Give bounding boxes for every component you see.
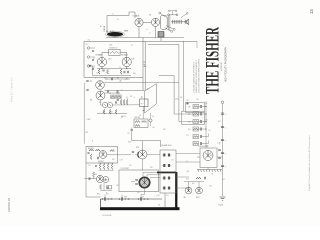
svg-text:.05: .05 bbox=[152, 116, 154, 118]
svg-text:330: 330 bbox=[205, 103, 208, 105]
svg-text:R39: R39 bbox=[137, 192, 140, 194]
svg-text:68K: 68K bbox=[180, 97, 183, 99]
svg-text:26: 26 bbox=[188, 114, 190, 116]
svg-text:C1: C1 bbox=[112, 14, 114, 16]
svg-text:C33: C33 bbox=[116, 185, 119, 187]
svg-text:220K: 220K bbox=[175, 99, 178, 101]
svg-text:6V6: 6V6 bbox=[133, 73, 136, 75]
svg-text:R25: R25 bbox=[186, 179, 189, 181]
svg-text:C38: C38 bbox=[210, 155, 213, 157]
svg-text:V6: V6 bbox=[90, 100, 92, 102]
svg-text:R33: R33 bbox=[218, 121, 221, 123]
svg-text:C4: C4 bbox=[96, 73, 98, 75]
svg-text:L1 . P-T2 .: L1 . P-T2 . bbox=[106, 31, 116, 33]
svg-text:R19: R19 bbox=[99, 102, 102, 104]
svg-text:5K: 5K bbox=[212, 174, 214, 176]
svg-text:B+245: B+245 bbox=[219, 205, 224, 207]
svg-text:T4: T4 bbox=[198, 146, 200, 148]
svg-text:C50 40-40 MF: C50 40-40 MF bbox=[102, 215, 112, 217]
svg-text:6.3V: 6.3V bbox=[120, 160, 123, 162]
svg-text:T2: T2 bbox=[149, 33, 151, 35]
svg-text:R36: R36 bbox=[150, 167, 153, 169]
svg-text:5Y3: 5Y3 bbox=[187, 171, 190, 173]
svg-text:C15: C15 bbox=[99, 86, 102, 88]
svg-text:.005: .005 bbox=[196, 99, 199, 101]
svg-text:V11: V11 bbox=[94, 174, 97, 176]
svg-text:100: 100 bbox=[206, 146, 209, 148]
svg-text:470K: 470K bbox=[116, 93, 119, 95]
svg-text:S2: S2 bbox=[147, 89, 149, 91]
svg-text:R20: R20 bbox=[86, 132, 89, 134]
svg-text:115V: 115V bbox=[141, 197, 144, 199]
svg-text:R26: R26 bbox=[112, 159, 115, 161]
svg-text:C5: C5 bbox=[93, 58, 95, 60]
svg-text:R28: R28 bbox=[163, 129, 166, 131]
svg-text:R1: R1 bbox=[131, 45, 133, 47]
svg-text:R30 R31: R30 R31 bbox=[88, 148, 94, 150]
svg-text:C28: C28 bbox=[129, 165, 132, 167]
svg-text:B: B bbox=[106, 193, 107, 195]
svg-text:V1 6AU6: V1 6AU6 bbox=[133, 15, 140, 18]
svg-text:Mag/AFC/TVno/CondioBook.con Fi: Mag/AFC/TVno/CondioBook.con Fisher 80 Ch… bbox=[308, 135, 311, 191]
svg-text:6BE6: 6BE6 bbox=[124, 31, 128, 33]
svg-text:V2: V2 bbox=[149, 15, 151, 17]
svg-text:R7: R7 bbox=[93, 68, 95, 70]
svg-text:V3 6BA6: V3 6BA6 bbox=[96, 54, 103, 57]
svg-text:C: C bbox=[225, 167, 226, 169]
svg-text:2405000-1B: 2405000-1B bbox=[7, 198, 11, 212]
svg-text:R17: R17 bbox=[187, 100, 190, 102]
svg-text:C: C bbox=[225, 114, 226, 116]
svg-text:C9: C9 bbox=[128, 133, 130, 135]
svg-text:Fisher 80 T Chassis b/w: Fisher 80 T Chassis b/w bbox=[11, 77, 14, 102]
svg-text:C22: C22 bbox=[88, 165, 91, 167]
svg-text:R45: R45 bbox=[192, 183, 195, 185]
svg-text:C44: C44 bbox=[157, 195, 160, 197]
svg-text:18: 18 bbox=[188, 122, 190, 124]
svg-text:T3 OUTPUT: T3 OUTPUT bbox=[121, 168, 129, 170]
svg-text:6.3V: 6.3V bbox=[218, 143, 221, 145]
svg-text:d: d bbox=[134, 97, 135, 99]
svg-text:C: C bbox=[225, 154, 226, 156]
svg-text:R46: R46 bbox=[97, 193, 100, 195]
svg-text:C8: C8 bbox=[119, 67, 121, 69]
svg-text:R22 1M: R22 1M bbox=[135, 117, 141, 119]
svg-text:470K: 470K bbox=[109, 45, 112, 47]
svg-text:C: C bbox=[225, 128, 226, 130]
svg-text:V10: V10 bbox=[136, 147, 139, 149]
svg-text:C41: C41 bbox=[166, 195, 169, 197]
svg-text:C40 40MF 450V: C40 40MF 450V bbox=[161, 145, 172, 147]
svg-text:d 4: d 4 bbox=[88, 39, 90, 41]
svg-text:R11: R11 bbox=[125, 79, 128, 81]
svg-text:R40 R41: R40 R41 bbox=[98, 161, 104, 163]
svg-text:C: C bbox=[225, 141, 226, 143]
svg-text:C21: C21 bbox=[186, 135, 189, 137]
svg-text:.02: .02 bbox=[121, 90, 123, 92]
svg-text:R4 47K C7: R4 47K C7 bbox=[110, 48, 118, 50]
svg-text:27K: 27K bbox=[205, 120, 208, 122]
svg-text:10: 10 bbox=[188, 129, 190, 131]
svg-text:13: 13 bbox=[309, 9, 314, 14]
svg-text:R8: R8 bbox=[117, 78, 119, 80]
svg-text:.002: .002 bbox=[171, 160, 174, 162]
svg-text:.01: .01 bbox=[123, 58, 125, 60]
svg-text:HIGH FIDELITY PHONOGRAPH: HIGH FIDELITY PHONOGRAPH bbox=[223, 47, 227, 83]
svg-text:350V: 350V bbox=[128, 142, 131, 144]
svg-text:SEL: SEL bbox=[184, 197, 187, 199]
svg-text:C31: C31 bbox=[208, 130, 211, 132]
svg-text:J1: J1 bbox=[86, 44, 88, 46]
svg-text:OSC: OSC bbox=[222, 179, 225, 181]
svg-text:THE FISHER: THE FISHER bbox=[204, 27, 224, 94]
svg-text:.01: .01 bbox=[109, 93, 111, 95]
svg-text:C30: C30 bbox=[209, 186, 212, 188]
svg-text:4 SELECTOR SWITCH 5 TUNING C: 4 SELECTOR SWITCH 5 TUNING CONTROL bbox=[199, 58, 201, 93]
svg-text:C24: C24 bbox=[152, 127, 155, 129]
svg-text:RECT: RECT bbox=[196, 197, 200, 199]
svg-text:R38: R38 bbox=[104, 180, 107, 182]
svg-text:28: 28 bbox=[188, 107, 190, 109]
svg-text:R2: R2 bbox=[117, 19, 119, 21]
svg-text:V5: V5 bbox=[90, 81, 92, 83]
svg-text:47K: 47K bbox=[130, 96, 133, 98]
svg-text:L4: L4 bbox=[146, 29, 148, 31]
svg-text:5V: 5V bbox=[186, 161, 188, 163]
svg-text:GND: GND bbox=[124, 197, 127, 199]
